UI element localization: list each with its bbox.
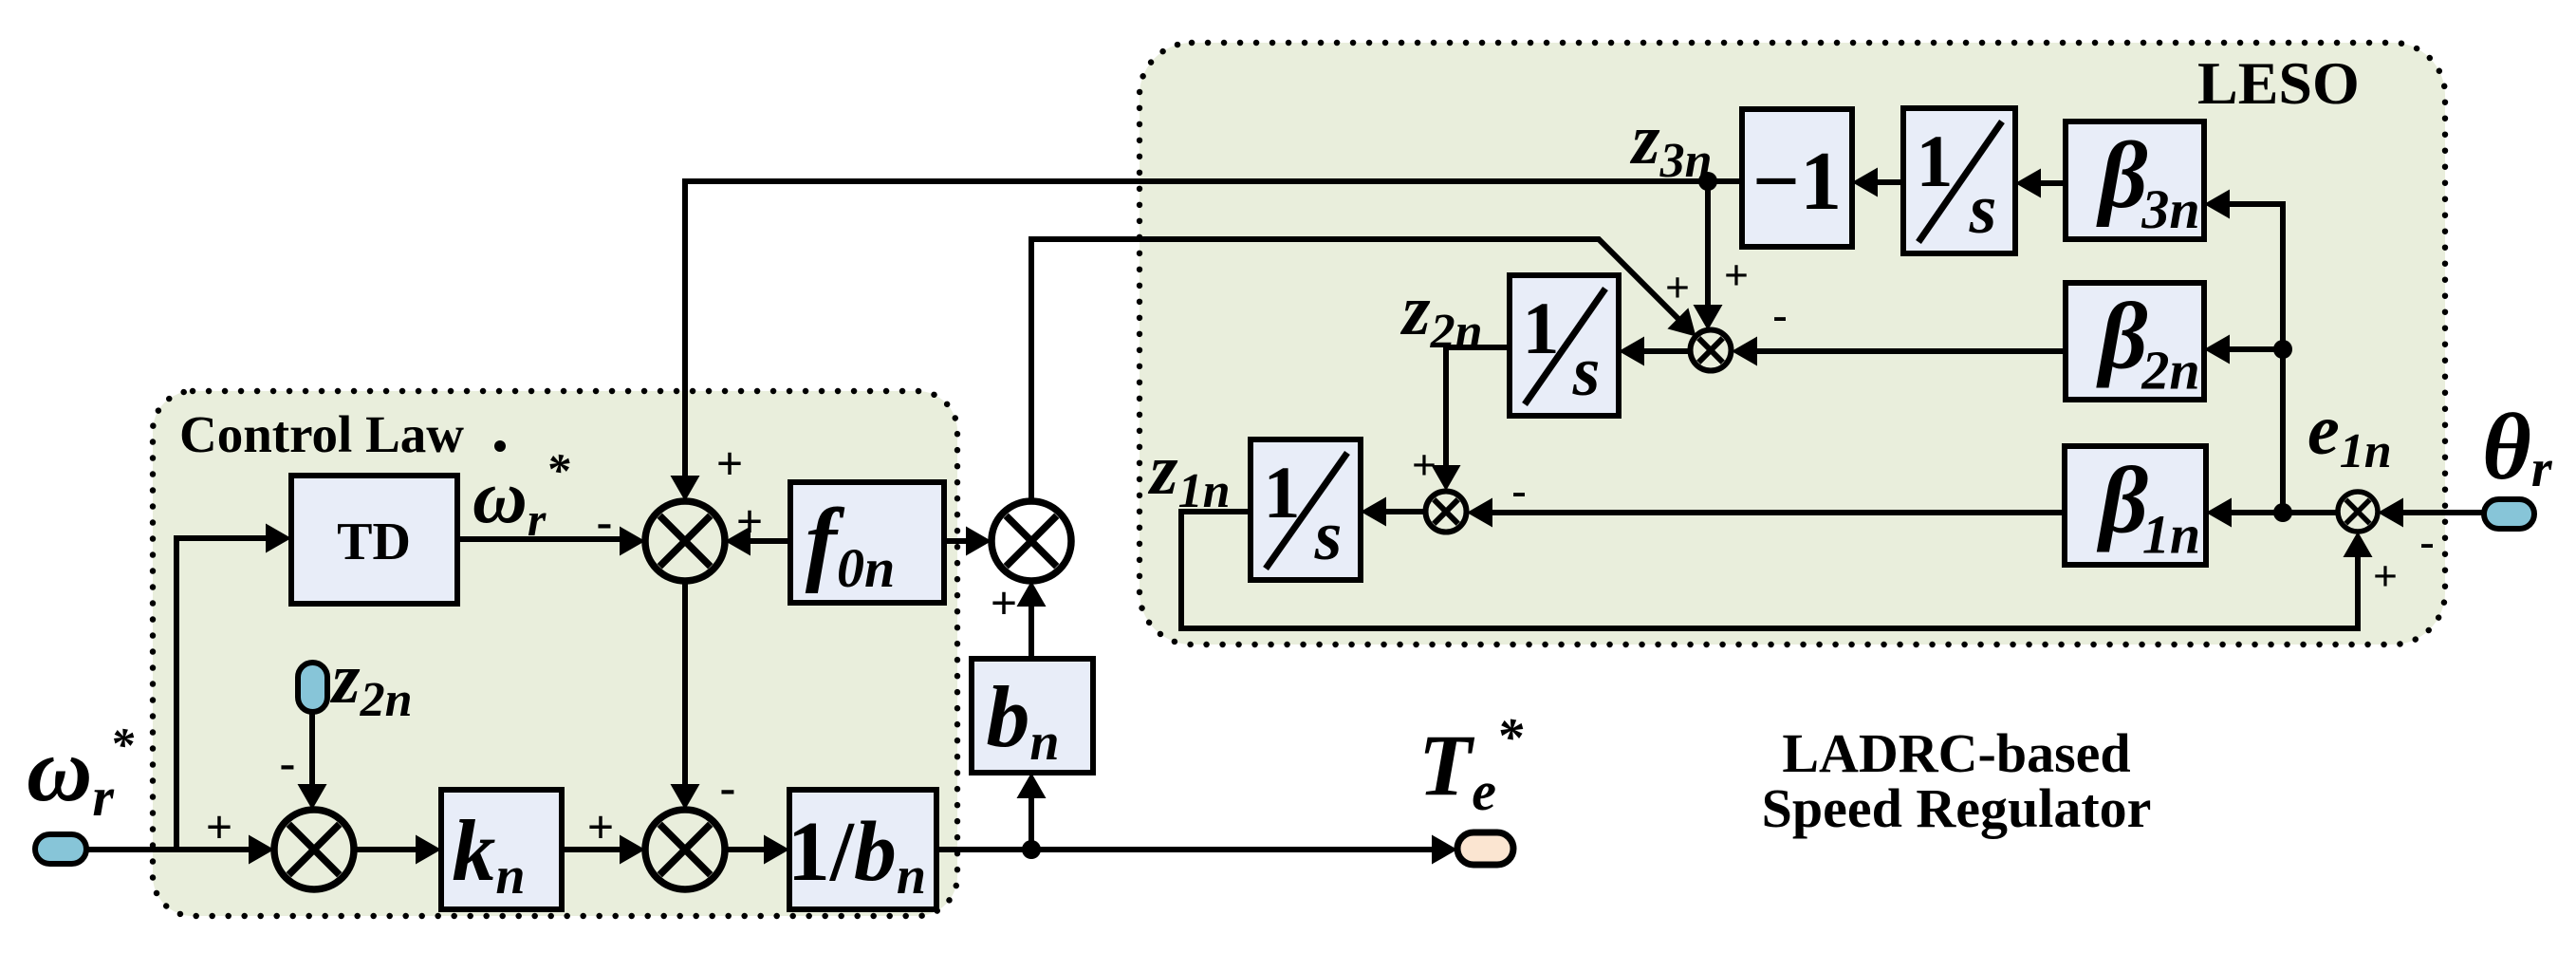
- wire: sum S4 output to 1/bn: [725, 847, 764, 852]
- block integrator 1/s (middle): [1510, 275, 1619, 416]
- svg-text:-: -: [720, 760, 736, 813]
- wire: bn output up into multiplier M: [1029, 607, 1034, 659]
- wire: kn output to sum S4: [562, 847, 620, 852]
- wire: beta1n output into sum Z1: [1492, 510, 2065, 515]
- junction dot on output line: [1022, 840, 1041, 859]
- svg-text:+: +: [1412, 440, 1436, 489]
- output port Te* (pill): [1457, 832, 1513, 865]
- svg-text:TD: TD: [337, 513, 411, 571]
- block -1: [1742, 109, 1852, 247]
- summing junction Z2 (z2n observer sum): [1691, 330, 1732, 371]
- wire: f0n output right into multiplier M: [944, 538, 966, 544]
- wire: trunk branch into beta2n input: [2229, 346, 2283, 352]
- svg-text:+: +: [991, 576, 1018, 629]
- wire: sum Z1 output into integrator 1/s (left): [1386, 509, 1425, 514]
- input port z2n (pill): [298, 663, 327, 712]
- svg-text:+: +: [716, 437, 744, 490]
- svg-text:-: -: [2419, 517, 2434, 566]
- svg-text:s: s: [1572, 333, 1601, 411]
- block 1/bn: [789, 790, 936, 909]
- block TD: [291, 476, 457, 604]
- wire: theta_r input into sum TH: [2403, 510, 2484, 515]
- block kn: [441, 790, 562, 909]
- svg-text:s: s: [1314, 497, 1343, 575]
- svg-text:+: +: [587, 800, 615, 853]
- svg-text:LESO: LESO: [2197, 49, 2360, 117]
- svg-text:β: β: [2096, 448, 2148, 553]
- wire: junction up into bn: [1029, 797, 1034, 850]
- svg-text:1n: 1n: [2142, 504, 2200, 566]
- block f0n: [790, 482, 944, 603]
- wire: z3n drop into sum Z2: [1705, 181, 1711, 308]
- svg-text:Control Law: Control Law: [179, 405, 464, 463]
- wire: beta2n output into sum Z2: [1756, 348, 2066, 354]
- wire: z2n pill down into sum S3: [309, 712, 315, 784]
- svg-text:+: +: [206, 800, 233, 853]
- svg-text:β: β: [2095, 122, 2147, 228]
- summing junction Z1 (z1n observer sum): [1426, 492, 1467, 533]
- svg-text:+: +: [1665, 263, 1690, 311]
- junction dot trunk/beta2n: [2273, 340, 2292, 359]
- block beta_2n (beta2n): [2066, 283, 2204, 400]
- junction dot e1n: [2273, 503, 2292, 522]
- wire: 1/bn output to Te* pill (main output): [936, 847, 1432, 852]
- svg-text:s: s: [1969, 171, 1997, 249]
- input port omega_r* (pill): [35, 834, 86, 864]
- svg-text:1: 1: [1917, 120, 1954, 202]
- wire: f0n output left into sum S1: [751, 538, 790, 544]
- summing junction S4 (control sum): [645, 810, 725, 889]
- svg-text:β: β: [2095, 284, 2147, 389]
- svg-text:+: +: [2373, 551, 2398, 600]
- summing junction S1 (speed error sum): [645, 501, 725, 581]
- wire: branch up to TD input: [176, 538, 266, 850]
- block beta_3n (beta3n): [2066, 121, 2204, 239]
- wire: integrator middle output z2n down into sum Z1: [1446, 347, 1510, 468]
- input port theta_r (pill): [2484, 499, 2534, 529]
- wire: z1n feedback from integrator left around to sum TH: [1181, 512, 2358, 628]
- svg-text:1: 1: [1523, 287, 1560, 369]
- summing junction S3 (omega - z2n sum): [274, 810, 354, 889]
- wire: multiplier M output up, right, diagonal into sum Z2: [1031, 239, 1680, 501]
- summing junction TH (theta error sum): [2338, 492, 2378, 532]
- wire: beta3n output into integrator 1/s (top): [2040, 180, 2066, 186]
- svg-text:3n: 3n: [2140, 178, 2199, 240]
- wire: sum Z2 output into integrator 1/s (middle): [1644, 348, 1690, 354]
- wire: TD output to sum S1: [457, 536, 620, 542]
- wire: sum S3 output to kn: [354, 847, 416, 852]
- block integrator 1/s (left): [1251, 439, 1361, 580]
- svg-text:-: -: [597, 495, 613, 548]
- svg-text:-: -: [280, 736, 296, 789]
- svg-text:-: -: [1772, 290, 1787, 339]
- block integrator 1/s (top): [1903, 108, 2015, 253]
- wire: trunk up from e1n junction to beta3n input: [2229, 204, 2283, 513]
- svg-text:Speed Regulator: Speed Regulator: [1762, 777, 2152, 839]
- svg-text:-: -: [1511, 466, 1526, 514]
- junction dot z3n: [1698, 172, 1717, 191]
- dashed region: LESO group box: [1140, 43, 2445, 645]
- svg-text:1: 1: [1264, 451, 1301, 533]
- wire: e1n line from sum TH to beta1n: [2231, 510, 2338, 515]
- block bn: [972, 659, 1093, 773]
- svg-text:LADRC-based: LADRC-based: [1782, 722, 2130, 784]
- svg-text:−1: −1: [1752, 136, 1842, 228]
- svg-text:+: +: [736, 495, 764, 548]
- summing junction M (multiplier): [991, 501, 1071, 581]
- wire: z3n line from -1 block to sum S1 (long feedback): [685, 181, 1742, 476]
- wire: integrator top output into -1 block: [1878, 179, 1903, 185]
- svg-text:+: +: [1724, 251, 1749, 299]
- block beta_1n (beta1n): [2065, 446, 2206, 565]
- svg-text:2n: 2n: [2140, 340, 2199, 402]
- wire: omega_r* input to sum S3: [83, 847, 249, 852]
- wire: sum S1 output down to sum S4: [682, 581, 688, 784]
- dashed region: Control Law group box: [153, 391, 957, 916]
